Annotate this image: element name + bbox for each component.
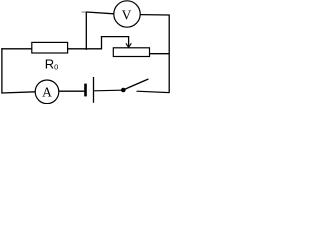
wire wiper horizontal: [101, 36, 129, 38]
switch S pivot dot: [121, 88, 126, 93]
wire wiper riser vertical: [101, 36, 103, 49]
wire ammeter to battery: [59, 90, 86, 92]
wire right vertical: [168, 14, 170, 93]
wire middle left segment: [1, 48, 32, 50]
svg-text:V: V: [122, 7, 132, 22]
wire potentiometer to right edge: [150, 53, 170, 55]
wire gray stub at top-left corner: [82, 11, 87, 13]
wire switch fixed contact to bottom-right: [137, 91, 170, 92]
wire bottom-left to ammeter: [1, 92, 35, 93]
wire V-branch vertical: [85, 12, 87, 50]
voltmeter U1 circle: [114, 1, 140, 27]
svg-text:R0: R0: [45, 56, 59, 71]
wire middle right segment: [68, 48, 103, 50]
wire battery to switch dot: [94, 89, 121, 92]
wire top-left horizontal to voltmeter: [87, 12, 114, 14]
battery long plate (positive): [93, 77, 95, 103]
switch blade (open): [124, 79, 148, 90]
svg-text:A: A: [42, 85, 52, 100]
wire voltmeter to top-right corner: [140, 14, 169, 16]
wiper arrowhead: [126, 43, 131, 47]
resistor R0 box: [32, 42, 68, 53]
potentiometer box: [113, 48, 149, 57]
wire left vertical: [1, 48, 3, 93]
wiper arrow stem: [128, 37, 130, 47]
ammeter A circle: [35, 80, 59, 104]
battery short plate (negative): [84, 84, 87, 97]
